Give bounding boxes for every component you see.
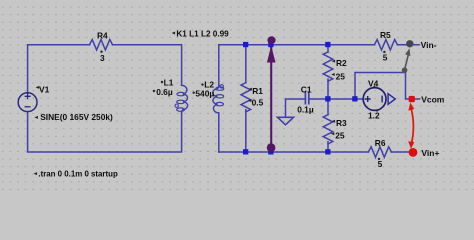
svg-text:5: 5: [383, 52, 388, 62]
ground: [278, 117, 294, 125]
voltage source V1: [18, 93, 37, 112]
voltage source V4: [363, 88, 395, 111]
wire: ground to C1 left: [286, 99, 305, 117]
wire: R2 to middle node: [327, 79, 329, 99]
wire: R1 branch bottom: [245, 110, 247, 152]
L2 winding loops: [216, 87, 224, 106]
svg-text:R4: R4: [97, 31, 108, 41]
svg-text:0.5: 0.5: [252, 98, 264, 108]
L1 winding loops: [177, 92, 185, 111]
svg-text:C1: C1: [301, 84, 312, 94]
wire: R5 to Vin-: [397, 44, 419, 46]
red node Vin+: [409, 148, 418, 157]
resistor R4: [90, 40, 113, 50]
resistor R6: [368, 147, 391, 157]
svg-text:0.6µ: 0.6µ: [156, 87, 173, 97]
svg-text:Vin-: Vin-: [421, 40, 437, 50]
svg-text:SINE(0 165V 250k): SINE(0 165V 250k): [40, 112, 113, 122]
svg-text:0.1µ: 0.1µ: [297, 104, 314, 114]
svg-text:K1 L1 L2 0.99: K1 L1 L2 0.99: [176, 29, 229, 38]
svg-text:R6: R6: [375, 138, 386, 148]
wire: V1 top to top rail to R4: [28, 45, 90, 93]
red node Vcom: [409, 96, 415, 102]
wire: R6 to Vin+: [391, 151, 411, 153]
svg-text:3: 3: [100, 53, 105, 63]
wire: middle node to R3: [327, 99, 329, 115]
phase dot L2: [220, 85, 223, 88]
wire: bottom right rail L2 to R6: [219, 151, 369, 153]
svg-text:25: 25: [335, 131, 345, 141]
svg-text:L1: L1: [164, 77, 174, 87]
svg-text:V4: V4: [368, 78, 379, 88]
wire: C1 right to V4 left: [310, 98, 363, 100]
svg-text:5: 5: [378, 159, 383, 169]
svg-text:R3: R3: [336, 118, 347, 128]
svg-text:Vin+: Vin+: [421, 148, 439, 158]
svg-text:540µ: 540µ: [195, 88, 214, 98]
gray switch wiper annotation: [402, 40, 414, 73]
svg-text:R5: R5: [380, 30, 391, 40]
svg-text:R1: R1: [252, 86, 263, 96]
inductor L2: [213, 85, 219, 113]
capacitor C1: [305, 92, 308, 103]
inductor L1: [182, 85, 188, 113]
svg-text:R2: R2: [336, 58, 347, 68]
purple annotation arrow: [267, 36, 276, 152]
red annotation arrow Vcom to Vin+: [408, 103, 414, 149]
resistor R2: [323, 52, 333, 81]
svg-text:.tran 0 0.1m 0 startup: .tran 0 0.1m 0 startup: [38, 169, 118, 178]
wire: L2 bottom: [218, 113, 220, 152]
wire: L1 bottom to bottom rail to V1 bottom: [28, 112, 182, 152]
wire: R1 branch top: [245, 45, 247, 83]
svg-text:V1: V1: [39, 84, 50, 94]
resistor R3: [323, 115, 333, 144]
wire: bypass over V4 to Vcom label: [355, 73, 420, 100]
junction node squares: [243, 42, 358, 155]
svg-text:1.2: 1.2: [368, 111, 380, 121]
resistor R5: [374, 40, 397, 50]
text anchor markers: [34, 32, 386, 176]
wire: top right rail L2 to R5: [219, 44, 375, 46]
resistor R1: [241, 83, 251, 112]
wire: L2 top: [218, 45, 220, 85]
wire: R2 branch top: [327, 45, 329, 52]
svg-text:25: 25: [336, 72, 346, 82]
phase dot L1: [175, 104, 178, 107]
wire: R3 to bottom rail: [327, 142, 329, 152]
wire: R4 to L1 top: [113, 45, 182, 85]
svg-text:Vcom: Vcom: [421, 95, 445, 105]
